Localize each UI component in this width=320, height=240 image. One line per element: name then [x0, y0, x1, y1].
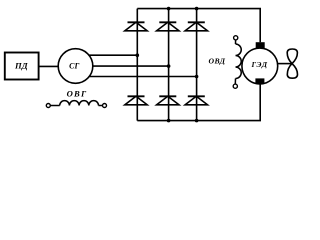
- junction dot top rail col2: [167, 7, 171, 11]
- winding OVD coil: [233, 36, 241, 89]
- motor brush bottom: [255, 78, 264, 84]
- wire bridge column 1: [136, 9, 138, 121]
- diode VD4 bottom column 1: [125, 96, 147, 105]
- wire top dc rail: [137, 9, 260, 43]
- motor brush top: [256, 42, 265, 48]
- diode VD1 top column 1: [125, 22, 147, 31]
- diode VD2 top column 2: [157, 22, 179, 31]
- junction dot top rail col3: [195, 7, 199, 11]
- wire bridge column 3: [196, 9, 198, 121]
- svg-text:ГЭД: ГЭД: [251, 60, 268, 69]
- wire bridge column 2: [168, 9, 170, 121]
- svg-text:СГ: СГ: [69, 61, 79, 70]
- propeller blade top: [287, 49, 297, 64]
- generator SG circle: [58, 49, 93, 84]
- junction dot phase2 col2: [167, 64, 171, 68]
- wire phase 3: [89, 76, 196, 78]
- svg-text:ОВД: ОВД: [208, 57, 225, 66]
- diode VD5 bottom column 2: [157, 96, 179, 105]
- propeller blade bottom: [287, 64, 297, 79]
- junction dot bottom rail col3: [195, 119, 199, 123]
- diode VD6 bottom column 3: [185, 96, 207, 105]
- wire phase 1: [89, 54, 137, 56]
- box PD (prime diesel): [5, 53, 39, 80]
- junction dot phase3 col3: [195, 75, 199, 79]
- wire bottom dc rail: [137, 84, 260, 121]
- wire PD to SG shaft: [39, 65, 59, 67]
- wire phase 2: [93, 65, 169, 67]
- junction dot bottom rail col2: [167, 119, 171, 123]
- svg-text:ОВГ: ОВГ: [67, 88, 88, 98]
- propeller shaft: [278, 63, 292, 65]
- svg-text:ПД: ПД: [14, 61, 29, 71]
- junction dot phase1 col1: [136, 53, 140, 57]
- winding OVG coil: [46, 101, 106, 108]
- motor GED circle: [242, 48, 278, 84]
- diode VD3 top column 3: [185, 22, 207, 31]
